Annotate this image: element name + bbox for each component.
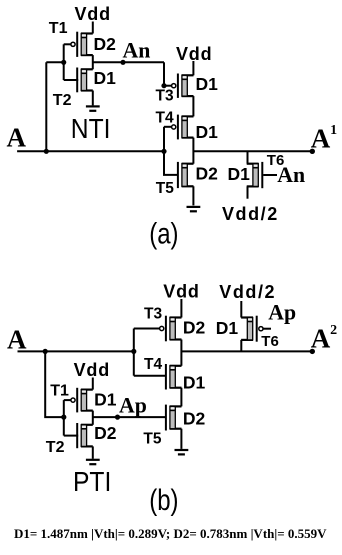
wire A1 line to T6 drain [247,151,249,163]
wire Vdd to T3 drain (b) [180,299,182,318]
wire T6 source to A2 line [240,340,242,352]
svg-text:D1: D1 [196,122,219,142]
transistor T4 (PMOS, D1) [172,115,194,140]
ground T5 (b) [175,450,189,454]
svg-text:T4: T4 [156,110,174,127]
node An [120,60,125,65]
node Ap [115,415,120,420]
svg-text:D1: D1 [94,68,117,88]
svg-text:(a): (a) [149,216,178,250]
svg-text:T3: T3 [156,88,174,105]
wire T2 gate stub (b) [64,435,78,437]
node T1/T2 gate junction (b) [61,415,66,420]
svg-text:A: A [7,122,27,152]
transistor T5 (NMOS, D2) of PTI [166,405,182,431]
wire T1-T2 gate vertical [63,44,65,80]
svg-text:Vdd/2: Vdd/2 [219,282,276,302]
svg-text:D2: D2 [94,423,117,443]
ground T2 (b) [86,460,100,464]
node T3 gate junction [161,83,166,88]
wire Vdd to T1 drain [92,22,94,34]
transistor T5 (NMOS, D2) [178,162,194,188]
wire T2 gate stub [64,79,78,81]
wire input A horizontal (b) [18,350,134,352]
wire T3 gate stub [164,85,171,87]
wire T3 gate stub (b) [134,328,160,330]
wire T5 source to ground [192,186,194,205]
svg-text:T1: T1 [49,20,68,37]
wire Vdd to T3 drain [192,61,194,75]
wire Vdd/2 to T6 drain [240,301,242,318]
transistor T2 (NMOS, D2) of PTI [77,423,93,448]
svg-text:D1: D1 [228,164,251,184]
svg-text:A: A [311,324,331,354]
wire gate node horizontal [46,61,63,63]
svg-text:D1: D1 [196,74,219,94]
wire A up to gate node vertical [45,62,47,151]
svg-text:T6: T6 [261,333,279,350]
svg-text:Vdd: Vdd [163,282,199,302]
svg-text:PTI: PTI [73,465,111,497]
svg-text:(b): (b) [149,482,178,516]
svg-text:2: 2 [330,323,337,338]
transistor T3 (PMOS, D2) of PTI [160,316,182,342]
svg-text:Vdd/2: Vdd/2 [222,204,279,224]
transistor T1 (PMOS, D1) of PTI [71,388,93,413]
svg-text:Vdd: Vdd [176,44,212,64]
wire Vdd to T1 drain (b) [92,378,94,390]
wire T4-T5 junction (b) [180,388,182,407]
transistor T3 (PMOS, D1) [172,74,194,98]
transistor T2 (NMOS, D1) [77,68,93,93]
svg-text:D1: D1 [216,318,239,338]
wire T4-T5 junction [192,138,194,164]
svg-text:D2: D2 [183,318,206,338]
svg-text:T4: T4 [144,356,162,373]
wire T6 source to Vdd/2 [247,186,249,198]
wire input A horizontal [17,150,164,152]
wire T4 gate stub (b) [134,375,166,377]
svg-text:1: 1 [330,123,337,138]
node A gates junction (b) [131,349,136,354]
wire A to T3/T4 gates vertical (b) [133,329,135,376]
wire T1-T2 junction (b) [92,411,94,425]
wire An output horizontal [93,61,164,63]
svg-text:Vdd: Vdd [75,4,111,24]
svg-text:An: An [277,163,305,187]
wire T1-T2 gate vertical (b) [63,400,65,436]
svg-text:T1: T1 [50,383,69,400]
wire An down to T3 gate [163,62,165,85]
transistor T4 (NMOS, D1) of PTI [166,364,182,390]
node output A2 [310,349,315,354]
ground T2 [86,106,100,110]
wire A down to gate node (b) [45,351,64,417]
svg-text:D1= 1.487nm |Vth|= 0.289V; D2=: D1= 1.487nm |Vth|= 0.289V; D2= 0.783nm |… [14,526,327,541]
svg-text:T5: T5 [143,431,161,448]
transistor T1 (PMOS, D2) [71,32,93,57]
wire T1 gate stub [64,43,71,45]
wire output A1 horizontal [193,150,312,152]
svg-text:T3: T3 [144,306,162,323]
svg-text:D2: D2 [183,409,206,429]
svg-text:Vdd: Vdd [74,360,110,380]
wire T2 source to ground (b) [92,446,94,458]
node A to T1/T2 gates junction [44,149,49,154]
node A to T1/T2 gates junction (b) [43,349,48,354]
svg-text:Ap: Ap [268,301,296,325]
svg-text:D1: D1 [183,373,206,393]
svg-text:T2: T2 [53,92,72,109]
wire T5 source to ground (b) [180,429,182,449]
svg-text:D1: D1 [94,389,117,409]
svg-text:D2: D2 [196,163,219,183]
svg-text:T5: T5 [156,180,174,197]
wire Ap output to T5 gate [93,416,166,418]
node T1/T2 gate junction [61,60,66,65]
wire T2 source to ground [92,91,94,106]
wire T6 gate stub [263,174,277,176]
svg-text:D2: D2 [94,34,117,54]
wire T6 gate stub (b) [263,328,271,330]
svg-text:NTI: NTI [71,112,111,144]
wire T4 gate stub [164,126,171,128]
svg-text:An: An [123,38,151,62]
wire T1-T2 junction vertical [92,55,94,69]
svg-text:T2: T2 [46,439,65,456]
wire T1 gate stub (b) [64,399,71,401]
wire T3-T4 junction (b) [180,340,182,366]
wire T3-T4 junction [192,96,194,116]
transistor T6 (PMOS, pass to Vdd/2) of PTI [241,316,263,342]
wire output A2 horizontal [181,350,312,352]
svg-text:A: A [311,124,331,154]
ground T5 [187,207,201,211]
node A to T4/T5 gates junction [161,149,166,154]
transistor T6 (NMOS, pass to Vdd/2) [247,162,263,188]
svg-text:A: A [7,324,27,354]
node output A1 [310,149,315,154]
wire A up to T4 and down to T5 gates [164,127,178,175]
svg-text:Ap: Ap [119,393,147,417]
